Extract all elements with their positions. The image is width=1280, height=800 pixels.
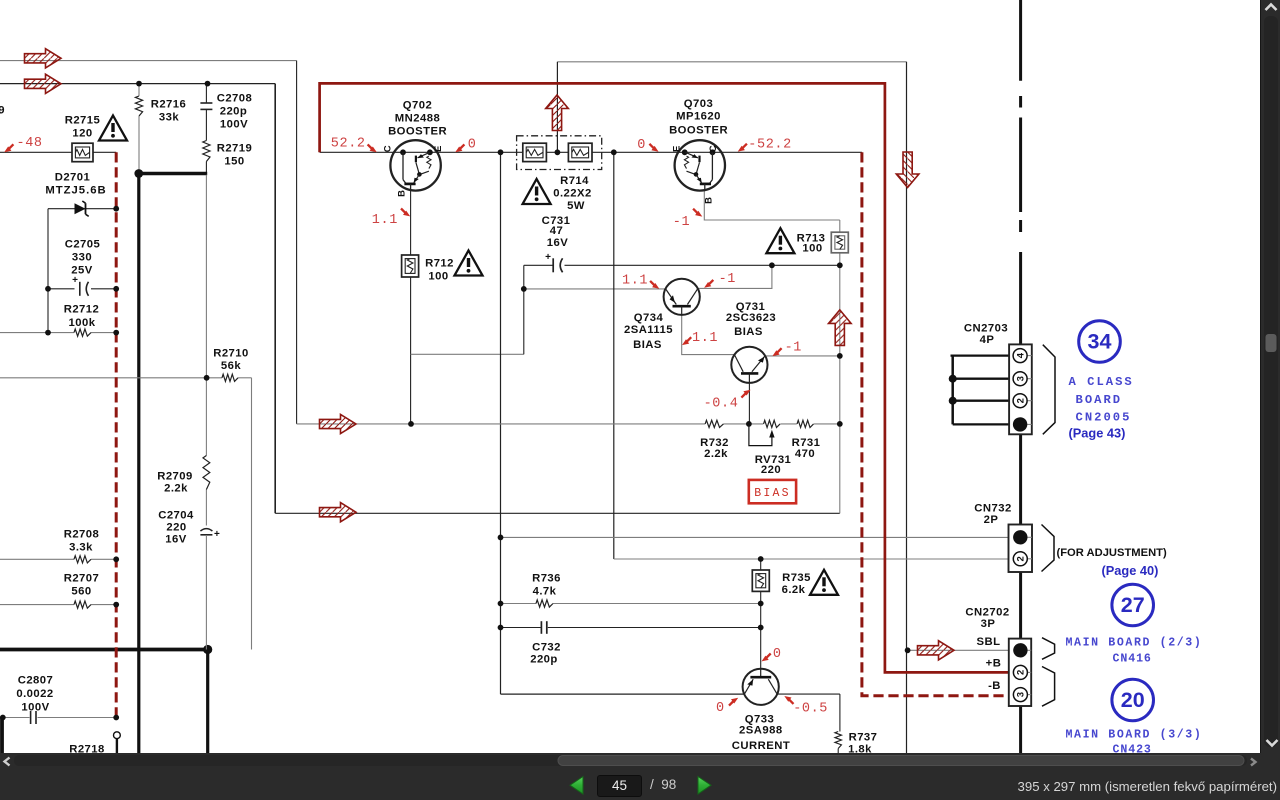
- svg-text:BOOSTER: BOOSTER: [669, 125, 728, 137]
- svg-text:CN2703: CN2703: [964, 323, 1008, 335]
- svg-text:Q734: Q734: [634, 312, 664, 324]
- svg-text:220p: 220p: [220, 106, 248, 118]
- svg-text:100: 100: [802, 242, 822, 254]
- svg-text:C732: C732: [532, 641, 561, 653]
- svg-text:R732: R732: [700, 437, 729, 449]
- svg-text:Q731: Q731: [736, 301, 765, 313]
- svg-text:R2709: R2709: [157, 470, 193, 482]
- svg-text:C2807: C2807: [18, 675, 54, 687]
- svg-text:R2719: R2719: [217, 143, 253, 155]
- svg-text:2SA1115: 2SA1115: [624, 324, 673, 336]
- svg-text:100: 100: [428, 271, 448, 283]
- svg-text:R714: R714: [560, 175, 589, 187]
- svg-text:R736: R736: [532, 573, 561, 585]
- svg-text:Q703: Q703: [684, 98, 713, 110]
- svg-text:-0.4: -0.4: [704, 397, 739, 412]
- svg-text:-B: -B: [988, 680, 1001, 692]
- svg-text:16V: 16V: [547, 237, 568, 249]
- svg-text:52.2: 52.2: [331, 137, 366, 152]
- svg-text:+: +: [72, 275, 78, 286]
- svg-text:3: 3: [1015, 376, 1026, 381]
- svg-text:-1: -1: [673, 215, 690, 230]
- svg-text:-1: -1: [785, 341, 802, 356]
- svg-text:2: 2: [1015, 398, 1026, 403]
- svg-text:120: 120: [72, 128, 92, 140]
- svg-text:16V: 16V: [165, 533, 186, 545]
- svg-text:2: 2: [1016, 670, 1027, 675]
- svg-text:5W: 5W: [567, 200, 585, 212]
- svg-text:E: E: [671, 146, 682, 152]
- svg-text:R737: R737: [849, 732, 878, 744]
- svg-text:CN2702: CN2702: [965, 607, 1009, 619]
- svg-text:33k: 33k: [159, 112, 179, 124]
- svg-text:0: 0: [773, 647, 782, 662]
- svg-text:+: +: [214, 529, 220, 540]
- svg-text:A CLASS: A CLASS: [1069, 375, 1134, 389]
- svg-text:R2715: R2715: [65, 115, 101, 127]
- svg-text:1.1: 1.1: [692, 331, 718, 346]
- svg-text:1.1: 1.1: [372, 213, 398, 228]
- svg-text:47: 47: [550, 225, 563, 237]
- svg-text:BIAS: BIAS: [633, 339, 662, 351]
- svg-text:+B: +B: [986, 658, 1002, 670]
- svg-text:2P: 2P: [984, 514, 999, 526]
- svg-text:CN2005: CN2005: [1076, 411, 1132, 425]
- svg-text:MP1620: MP1620: [676, 111, 721, 123]
- svg-text:100V: 100V: [220, 119, 248, 131]
- svg-text:0.0022: 0.0022: [16, 688, 53, 700]
- svg-text:BIAS: BIAS: [754, 487, 790, 500]
- svg-text:4P: 4P: [980, 334, 995, 346]
- svg-text:R2707: R2707: [64, 573, 100, 585]
- svg-text:0.22X2: 0.22X2: [553, 188, 592, 200]
- svg-text:C2708: C2708: [217, 93, 253, 105]
- svg-text:D2701: D2701: [55, 172, 91, 184]
- svg-text:-48: -48: [17, 136, 43, 151]
- svg-text:(Page 43): (Page 43): [1069, 426, 1126, 441]
- svg-text:MTZJ5.6B: MTZJ5.6B: [45, 185, 106, 197]
- svg-text:2.2k: 2.2k: [704, 448, 728, 460]
- svg-text:100k: 100k: [69, 317, 96, 329]
- svg-text:BOOSTER: BOOSTER: [388, 126, 447, 138]
- svg-text:B: B: [703, 197, 714, 204]
- svg-text:25V: 25V: [71, 265, 92, 277]
- svg-text:R2716: R2716: [151, 99, 187, 111]
- svg-text:R2708: R2708: [64, 528, 100, 540]
- svg-text:R735: R735: [782, 572, 811, 584]
- svg-text:27: 27: [1121, 593, 1145, 617]
- svg-text:2SA988: 2SA988: [739, 724, 783, 736]
- svg-text:6.2k: 6.2k: [782, 584, 806, 596]
- svg-text:+: +: [545, 252, 551, 263]
- svg-text:CURRENT: CURRENT: [732, 740, 790, 752]
- svg-text:34: 34: [1088, 330, 1112, 354]
- svg-text:2: 2: [1016, 556, 1027, 561]
- svg-text:220: 220: [166, 521, 186, 533]
- svg-text:BIAS: BIAS: [734, 326, 763, 338]
- svg-text:R2710: R2710: [213, 348, 249, 360]
- svg-text:B: B: [397, 190, 408, 197]
- svg-text:560: 560: [71, 586, 91, 598]
- svg-text:0: 0: [468, 138, 477, 153]
- svg-text:150: 150: [224, 156, 244, 168]
- svg-text:100V: 100V: [21, 702, 49, 714]
- svg-text:C2704: C2704: [158, 509, 194, 521]
- svg-text:20: 20: [1121, 688, 1145, 712]
- svg-text:CN416: CN416: [1113, 653, 1152, 666]
- svg-text:330: 330: [72, 252, 92, 264]
- svg-text:2SC3623: 2SC3623: [726, 312, 776, 324]
- svg-text:4: 4: [1015, 352, 1026, 358]
- svg-text:R712: R712: [425, 258, 454, 270]
- svg-text:-1: -1: [719, 272, 736, 287]
- svg-text:9: 9: [0, 104, 5, 116]
- svg-text:220: 220: [761, 464, 781, 476]
- svg-text:MN2488: MN2488: [395, 113, 440, 125]
- svg-text:R2712: R2712: [64, 304, 100, 316]
- svg-text:MAIN BOARD (3/3): MAIN BOARD (3/3): [1066, 729, 1203, 742]
- svg-text:220p: 220p: [530, 654, 558, 666]
- svg-text:Q702: Q702: [403, 100, 432, 112]
- svg-text:1.8k: 1.8k: [848, 744, 872, 753]
- svg-text:4.7k: 4.7k: [533, 586, 557, 598]
- svg-text:MAIN BOARD (2/3): MAIN BOARD (2/3): [1066, 637, 1203, 650]
- svg-text:C: C: [708, 145, 719, 152]
- svg-text:(FOR ADJUSTMENT): (FOR ADJUSTMENT): [1057, 547, 1167, 559]
- svg-text:BOARD: BOARD: [1076, 393, 1123, 407]
- svg-text:56k: 56k: [221, 360, 241, 372]
- svg-text:2.2k: 2.2k: [164, 483, 188, 495]
- svg-text:CN732: CN732: [974, 503, 1011, 515]
- svg-text:CN423: CN423: [1113, 744, 1152, 753]
- svg-text:470: 470: [795, 448, 815, 460]
- svg-text:SBL: SBL: [977, 636, 1001, 648]
- svg-text:1.1: 1.1: [622, 274, 648, 289]
- svg-text:(Page 40): (Page 40): [1102, 563, 1159, 578]
- svg-text:C2705: C2705: [65, 239, 101, 251]
- svg-text:C: C: [383, 145, 394, 152]
- svg-text:0: 0: [716, 701, 725, 716]
- svg-text:3.3k: 3.3k: [69, 541, 93, 553]
- svg-text:0: 0: [637, 138, 646, 153]
- svg-text:-52.2: -52.2: [748, 138, 792, 153]
- svg-text:3P: 3P: [981, 618, 996, 630]
- svg-text:R731: R731: [792, 437, 821, 449]
- svg-text:-0.5: -0.5: [793, 702, 828, 717]
- svg-text:3: 3: [1016, 692, 1027, 697]
- svg-text:R2718: R2718: [69, 743, 105, 753]
- svg-text:E: E: [433, 146, 444, 152]
